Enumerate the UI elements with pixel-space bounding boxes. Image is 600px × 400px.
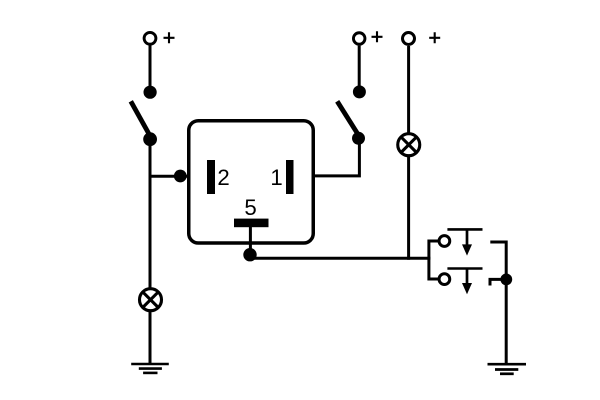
switch S3 upper arrow <box>466 229 469 246</box>
svg-text:2: 2 <box>217 165 229 190</box>
junction dot pin 5 <box>243 248 256 261</box>
lamp E2 cross <box>401 137 417 153</box>
junction dot node B <box>500 274 512 286</box>
switch S3 upper actuator bar <box>447 228 482 231</box>
switch S2 lower contact dot <box>352 132 365 145</box>
switch S3 lower arrow <box>466 269 469 285</box>
wire T1 to switch S1 <box>149 46 152 93</box>
wire pin 5 stub down <box>249 227 252 251</box>
lamp E1 circle (bottom left) <box>140 289 162 311</box>
switch S1 upper contact dot <box>144 86 157 99</box>
switch S3 lower contact circle <box>439 274 450 285</box>
terminal T2 battery + (top middle) <box>353 33 365 45</box>
svg-text:1: 1 <box>270 165 282 190</box>
plus label T3 <box>429 32 440 43</box>
wire relay pin 1 to switch S2 <box>313 137 359 176</box>
svg-text:5: 5 <box>244 195 256 220</box>
switch S2 upper contact dot <box>353 85 366 98</box>
switch S2 lever <box>337 101 358 135</box>
ground GND2 <box>488 364 527 374</box>
lamp E2 circle <box>398 134 420 156</box>
wire T2 to switch S2 <box>358 46 361 92</box>
wire S1 down to lamp E1 <box>149 139 152 289</box>
switch S1 lower contact dot <box>143 132 157 146</box>
junction dot at relay pin 2 <box>174 170 187 183</box>
ground GND1 <box>131 364 169 373</box>
terminal T1 battery + (top left) <box>144 32 156 44</box>
relay pin bar 2 <box>207 160 215 194</box>
wire branch to relay pin 2 <box>149 175 188 178</box>
switch S3 left bracket <box>429 241 439 279</box>
wire lamp E2 down to node <box>407 156 410 259</box>
plus label T1 <box>164 32 175 43</box>
switch S3 upper contact circle <box>439 236 450 247</box>
switch S3 lower actuator bar <box>447 267 482 270</box>
terminal T3 battery + (top right) <box>403 33 415 45</box>
relay pin bar 5 <box>234 219 269 228</box>
wire T3 to lamp E2 <box>407 46 410 133</box>
switch S1 lever <box>131 101 150 136</box>
plus label T2 <box>372 31 383 42</box>
wire lamp E1 to ground <box>149 311 152 364</box>
relay K1 body <box>189 121 314 243</box>
switch S3 upper output wire <box>490 242 506 364</box>
wire pin 5 to switch S3 <box>250 257 430 260</box>
relay pin bar 1 <box>286 160 294 194</box>
switch S3 lower output hook <box>490 279 506 285</box>
lamp E1 cross <box>143 292 159 308</box>
